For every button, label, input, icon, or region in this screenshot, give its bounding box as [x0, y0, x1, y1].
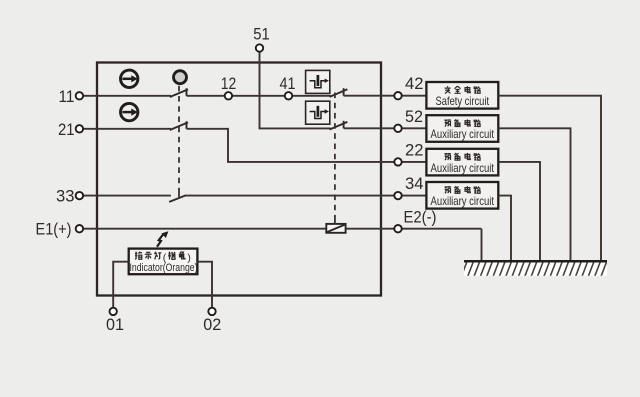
- svg-text:12: 12: [221, 74, 237, 93]
- svg-text:E1(+): E1(+): [36, 220, 72, 239]
- wire indicator left to terminal 01: [113, 262, 129, 308]
- lightning emission arrow: [157, 231, 168, 247]
- ground hatching: [461, 262, 606, 277]
- svg-text:51: 51: [253, 25, 270, 44]
- wire aux34 block to ground: [498, 196, 511, 262]
- node 41: [285, 92, 292, 99]
- svg-text:22: 22: [405, 140, 424, 159]
- svg-text:41: 41: [280, 74, 296, 93]
- NC contact 11-12 blade: [170, 88, 188, 97]
- auxiliary circuit block 52: [426, 115, 498, 142]
- dashed mechanical link 2: [334, 93, 336, 217]
- terminal 01: [110, 308, 117, 315]
- terminal E1: [76, 225, 83, 232]
- terminal 52: [394, 125, 401, 132]
- svg-text:11: 11: [59, 87, 75, 106]
- terminal E2: [394, 225, 401, 232]
- wire contact to terminal 34: [186, 195, 427, 197]
- plunger reset symbol box 2: [306, 101, 330, 124]
- auxiliary circuit block 34: [426, 182, 498, 209]
- wire 51 drop: [260, 48, 331, 128]
- actuator gray button circle: [174, 71, 187, 84]
- svg-text:52: 52: [405, 107, 423, 126]
- NC contact 51-52 blade: [330, 121, 348, 130]
- wire safety block to ground: [498, 96, 601, 262]
- direct opening action symbol circle 2: [121, 103, 138, 120]
- svg-text:01: 01: [106, 315, 124, 334]
- svg-text:Safety circuit: Safety circuit: [436, 94, 490, 108]
- svg-text:Indicator(Orange): Indicator(Orange): [130, 262, 198, 274]
- wire row2 21 to step: [83, 128, 171, 130]
- auxiliary circuit block 22: [426, 149, 498, 176]
- terminal 33: [76, 192, 83, 199]
- safety circuit block: [426, 82, 498, 109]
- svg-text:E2(-): E2(-): [404, 208, 437, 227]
- wire E2 down to ground: [481, 229, 483, 262]
- wire aux22 block to ground: [498, 162, 540, 262]
- device enclosure box: [97, 63, 381, 296]
- terminal 51: [256, 44, 263, 51]
- wire row 33: [83, 195, 171, 197]
- svg-text:Auxiliary circuit: Auxiliary circuit: [431, 194, 495, 208]
- wire 12-41 segment: [187, 95, 331, 97]
- terminal 22: [394, 158, 401, 165]
- svg-text:02: 02: [203, 315, 221, 334]
- svg-text:33: 33: [56, 187, 75, 206]
- ground hatch backing: [464, 262, 607, 276]
- NC contact 41-42 blade: [330, 88, 348, 97]
- svg-text:34: 34: [405, 174, 424, 193]
- wire element to terminal E2: [346, 228, 482, 230]
- terminal 42: [394, 92, 401, 99]
- wire 21 contact to step down to 22 row: [187, 129, 427, 162]
- wire row1 11-12-41: [83, 95, 171, 97]
- wire contact to terminal 52: [344, 127, 427, 129]
- plunger reset symbol box 1: [306, 70, 330, 93]
- wire aux52 block to ground: [498, 128, 570, 261]
- latch element rectangle on E1 row: [326, 224, 345, 233]
- wire contact to terminal 42: [344, 95, 427, 97]
- terminal 34: [394, 192, 401, 199]
- NO contact 33-34 blade: [169, 195, 186, 202]
- svg-text:Auxiliary circuit: Auxiliary circuit: [431, 127, 495, 141]
- indicator lamp box: [129, 249, 198, 275]
- terminal 11: [76, 92, 83, 99]
- wire indicator right to terminal 02: [197, 262, 212, 308]
- dashed mechanical link 1: [178, 86, 180, 191]
- svg-text:21: 21: [58, 120, 75, 139]
- svg-text:Auxiliary circuit: Auxiliary circuit: [431, 161, 495, 175]
- svg-text:42: 42: [405, 74, 424, 93]
- NC contact 21-22 blade: [170, 121, 188, 130]
- terminal 02: [208, 308, 215, 315]
- wire row E1 to lamp element: [83, 228, 326, 230]
- terminal 21: [76, 125, 83, 132]
- direct opening action symbol circle 1: [121, 70, 138, 87]
- ground bar: [464, 260, 607, 263]
- node 12: [225, 92, 232, 99]
